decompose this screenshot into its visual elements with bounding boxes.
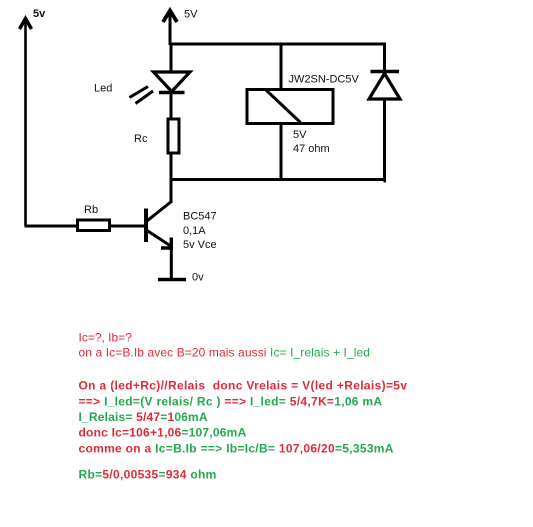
svg-text:comme on a Ic=B.Ib ==> Ib=Ic/B: comme on a Ic=B.Ib ==> Ib=Ic/B= 107,06/2… — [79, 442, 394, 456]
svg-text:on a Ic=B.Ib avec B=20 mais au: on a Ic=B.Ib avec B=20 mais aussi Ic= I_… — [79, 346, 371, 360]
resistor Rc — [168, 119, 179, 153]
svg-text:47 ohm: 47 ohm — [293, 143, 330, 155]
transistor Q1 emitter arrow ticks — [161, 238, 173, 251]
diode D2 triangle — [369, 74, 400, 100]
wire: base horizontal left segment — [25, 225, 78, 228]
wire: LED cathode to Rc — [170, 93, 173, 119]
svg-text:5V: 5V — [184, 9, 198, 21]
svg-text:5V: 5V — [293, 129, 307, 141]
svg-text:Rc: Rc — [134, 133, 148, 145]
relay K1 coil box — [247, 90, 333, 124]
svg-text:BC547: BC547 — [183, 211, 217, 223]
transistor Q1 emitter diagonal — [147, 231, 172, 247]
svg-text:donc Ic=106+1,06=107,06mA: donc Ic=106+1,06=107,06mA — [79, 426, 247, 440]
LED light ray slash 2 — [136, 91, 154, 104]
svg-text:Rb=5/0,00535=934 ohm: Rb=5/0,00535=934 ohm — [79, 468, 217, 482]
svg-text:I_Relais= 5/47=106mA: I_Relais= 5/47=106mA — [79, 410, 208, 424]
svg-text:JW2SN-DC5V: JW2SN-DC5V — [289, 74, 360, 86]
wire: left 5v rail vertical — [24, 20, 27, 226]
svg-text:0v: 0v — [192, 272, 204, 284]
svg-text:Ic=?, Ib=?: Ic=?, Ib=? — [79, 331, 133, 345]
resistor Rb — [78, 220, 110, 231]
svg-text:Rb: Rb — [84, 204, 98, 216]
wire: 5V to LED anode — [170, 43, 173, 72]
wire: emitter to ground — [170, 248, 173, 280]
wire: relay coil to collector node — [280, 124, 283, 181]
diode D2 cathode bar — [371, 70, 400, 73]
LED D1 triangle — [154, 72, 191, 92]
svg-text:==> I_led=(V relais/ Rc ) ==>: ==> I_led=(V relais/ Rc ) ==> I_led= 5/4… — [79, 395, 383, 409]
LED light ray slash 1 — [130, 87, 149, 98]
svg-text:5v Vce: 5v Vce — [183, 239, 217, 251]
relay K1 diagonal — [266, 90, 301, 123]
top 5V arrowhead — [163, 11, 177, 23]
svg-text:Led: Led — [94, 83, 112, 95]
wire: top rail to relay coil — [280, 43, 283, 89]
wire: collector node horizontal — [171, 178, 385, 181]
left 5v rail arrowhead — [20, 19, 32, 30]
wire: base horizontal right segment — [110, 225, 147, 228]
wire: top horizontal rail — [170, 43, 386, 46]
transistor Q1 base bar — [144, 209, 148, 243]
svg-text:5v: 5v — [33, 8, 46, 20]
wire: Rc to collector node — [170, 153, 173, 203]
ground bar 0v — [158, 278, 186, 282]
transistor Q1 collector diagonal — [147, 201, 173, 221]
wire: top 5V vertical — [169, 12, 172, 45]
svg-text:0,1A: 0,1A — [183, 225, 206, 237]
LED D1 cathode bar — [159, 91, 185, 94]
svg-text:On a (led+Rc)//Relais donc Vr: On a (led+Rc)//Relais donc Vrelais = V(l… — [79, 379, 408, 393]
wire: top rail to diode cathode — [383, 43, 386, 72]
wire: diode anode to collector node — [384, 99, 385, 181]
